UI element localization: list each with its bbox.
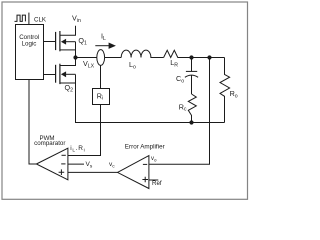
svg-text:Ref: Ref (152, 180, 162, 187)
svg-text:vo: vo (151, 156, 157, 162)
svg-text:comparator: comparator (34, 140, 65, 147)
svg-text:Error Amplifier: Error Amplifier (125, 143, 165, 150)
svg-text:Logic: Logic (22, 41, 37, 48)
svg-text:CLK: CLK (34, 17, 47, 24)
